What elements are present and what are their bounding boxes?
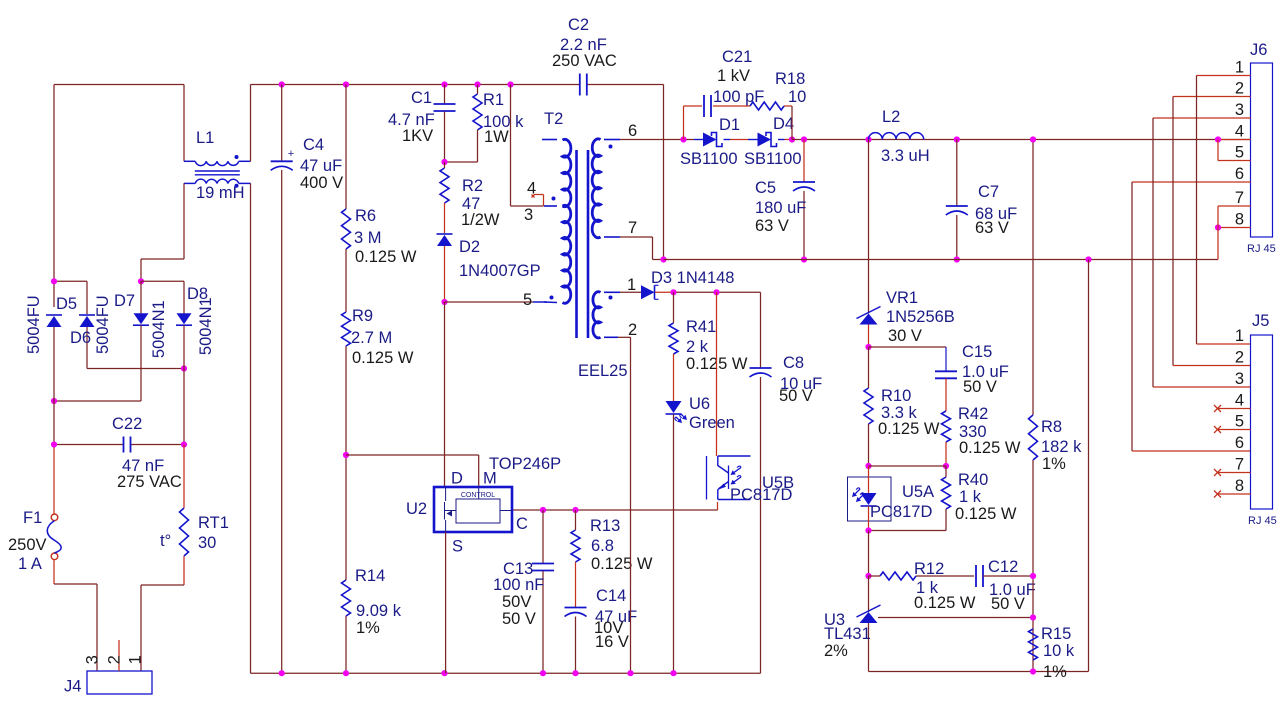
svg-text:6.8: 6.8 xyxy=(591,537,614,555)
label R6 xyxy=(355,207,376,225)
svg-text:1KV: 1KV xyxy=(402,127,433,145)
wire T2-2 drop xyxy=(618,337,631,673)
svg-text:0.125 W: 0.125 W xyxy=(591,555,653,573)
pin label 3 xyxy=(524,206,533,224)
label R40 xyxy=(958,471,988,489)
pin label J6-4 xyxy=(1235,123,1244,141)
node R14 gnd xyxy=(343,670,349,676)
wire D5 out xyxy=(53,327,55,514)
svg-text:1 k: 1 k xyxy=(959,488,982,506)
wire L1 top to bus xyxy=(250,85,252,162)
resistor R1 xyxy=(473,94,482,130)
svg-text:3: 3 xyxy=(1235,370,1244,388)
label 2% xyxy=(824,642,848,660)
svg-text:C8: C8 xyxy=(783,354,804,372)
resistor R6 xyxy=(342,209,351,249)
wire U6 gnd xyxy=(673,415,675,674)
svg-text:R41: R41 xyxy=(686,318,716,336)
label 100 k xyxy=(483,113,524,131)
wire U5B emitter to control xyxy=(512,502,718,510)
svg-text:6: 6 xyxy=(1235,434,1244,452)
capacitor C21 xyxy=(704,95,711,117)
label U5B xyxy=(762,474,794,492)
connector J4 xyxy=(87,671,152,694)
label 250 VAC xyxy=(552,52,617,70)
label t-deg xyxy=(160,532,171,550)
label 10 xyxy=(788,88,806,106)
svg-text:6: 6 xyxy=(628,122,637,140)
label R14 xyxy=(355,567,385,585)
diode D3 xyxy=(641,285,659,299)
node sec+ xyxy=(680,136,686,142)
svg-text:8: 8 xyxy=(1235,211,1244,229)
label 100 nF xyxy=(493,576,544,594)
resistor R15 xyxy=(1029,629,1038,660)
label C4 xyxy=(303,136,324,154)
svg-text:400 V: 400 V xyxy=(300,174,343,192)
svg-text:C2: C2 xyxy=(568,16,589,34)
resistor R9 xyxy=(342,312,351,346)
wire R41 stubs xyxy=(673,292,675,401)
svg-text:4: 4 xyxy=(1235,392,1244,410)
svg-text:R6: R6 xyxy=(355,207,376,225)
svg-text:1%: 1% xyxy=(1042,455,1066,473)
svg-text:1: 1 xyxy=(127,655,145,664)
resistor R40 xyxy=(942,477,951,509)
wire M wire xyxy=(346,455,479,487)
wire top bus xyxy=(251,84,664,86)
pin label J6-7 xyxy=(1235,189,1244,207)
label U2 xyxy=(406,500,427,518)
wire C15-R42 xyxy=(945,379,947,412)
pin J6-1 xyxy=(1197,75,1251,77)
svg-text:R40: R40 xyxy=(958,471,988,489)
capacitor C2 xyxy=(580,74,587,96)
node R8/C12 xyxy=(1030,573,1036,579)
label Green xyxy=(689,414,735,432)
label R13 watt xyxy=(591,555,653,573)
svg-text:RJ 45: RJ 45 xyxy=(1248,515,1277,527)
pin label 1 xyxy=(627,276,636,294)
label 50 V (C15) xyxy=(963,378,997,396)
label R6 watt xyxy=(355,248,417,266)
svg-text:R1: R1 xyxy=(483,91,504,109)
capacitor C15 xyxy=(935,371,957,378)
svg-text:D3 1N4148: D3 1N4148 xyxy=(651,269,734,287)
label 68 uF xyxy=(975,205,1017,223)
node R13 tap xyxy=(572,507,578,513)
pin J5-8 no-connect xyxy=(1214,491,1251,498)
svg-text:4: 4 xyxy=(527,180,536,198)
wire C15 branch xyxy=(869,347,947,372)
wire T2-7 jog xyxy=(620,237,664,260)
svg-text:R9: R9 xyxy=(352,307,373,325)
wire D3 out xyxy=(655,291,761,293)
diode D7 xyxy=(133,313,149,325)
capacitor C5 xyxy=(793,140,815,260)
wire TL431 ref xyxy=(878,617,1033,619)
node bus-C1 xyxy=(441,81,447,87)
svg-text:1: 1 xyxy=(627,276,636,294)
node R8 top xyxy=(1030,136,1036,142)
svg-text:10: 10 xyxy=(788,88,806,106)
svg-text:R15: R15 xyxy=(1041,625,1071,643)
svg-text:3 M: 3 M xyxy=(354,229,382,247)
svg-text:30: 30 xyxy=(198,534,216,552)
pin label J5-1 xyxy=(1235,327,1244,345)
svg-text:8: 8 xyxy=(1235,477,1244,495)
pin label J6-1 xyxy=(1235,59,1244,77)
transformer T2 core xyxy=(577,150,589,338)
wire left AC riser to L1 xyxy=(183,85,185,162)
pin label J5-7 xyxy=(1235,456,1244,474)
svg-text:1/2W: 1/2W xyxy=(461,211,500,229)
label R12 xyxy=(914,560,944,578)
svg-text:182 k: 182 k xyxy=(1041,438,1082,456)
label D4 xyxy=(773,115,794,133)
svg-text:J4: J4 xyxy=(64,678,81,696)
wire D8 down xyxy=(183,325,185,444)
svg-text:J6: J6 xyxy=(1250,41,1267,59)
node C13 tap xyxy=(540,507,546,513)
wire R2 stubs xyxy=(444,162,446,233)
node C7 gnd xyxy=(954,256,960,262)
wire TL431 gnd xyxy=(868,623,870,672)
label F1 xyxy=(23,509,42,527)
pin label 4 xyxy=(527,180,536,198)
connector J6 xyxy=(1251,63,1273,237)
label R15 xyxy=(1041,625,1071,643)
label 2.2 nF xyxy=(560,36,607,54)
svg-text:50 V: 50 V xyxy=(502,610,536,628)
pin label J6-5 xyxy=(1235,144,1244,162)
pin label 1 xyxy=(127,655,145,664)
label 1 kV xyxy=(717,67,750,85)
diode D6 xyxy=(79,315,95,327)
label R15 tol xyxy=(1043,663,1067,681)
LED U6 xyxy=(666,401,682,414)
label 1N4007GP xyxy=(459,262,541,280)
svg-text:C5: C5 xyxy=(755,179,776,197)
svg-text:SB1100: SB1100 xyxy=(744,150,802,168)
diode D8 xyxy=(176,313,192,325)
label 1W xyxy=(484,128,509,146)
svg-text:1%: 1% xyxy=(356,619,380,637)
wire R1 stub xyxy=(445,85,478,163)
node R8/ref xyxy=(1030,614,1036,620)
svg-text:R14: R14 xyxy=(355,567,385,585)
node T2-2 gnd xyxy=(627,670,633,676)
label PC817D (U5B) xyxy=(730,486,792,504)
svg-text:R42: R42 xyxy=(958,405,988,423)
svg-text:J5: J5 xyxy=(1252,312,1269,330)
label 50 V (C12) xyxy=(991,595,1025,613)
pin label C xyxy=(516,515,528,533)
wire L1 to D7/D8 xyxy=(141,183,184,281)
label 250V xyxy=(8,536,47,554)
diode D4 xyxy=(758,133,777,147)
wire sense column xyxy=(345,85,347,674)
svg-text:250V: 250V xyxy=(8,536,47,554)
wire R8 out xyxy=(1032,460,1034,672)
svg-text:T2: T2 xyxy=(544,110,563,128)
svg-text:Green: Green xyxy=(689,414,735,432)
svg-text:1 kV: 1 kV xyxy=(717,67,750,85)
label R10 watt xyxy=(878,420,940,438)
label C21 xyxy=(722,48,752,66)
svg-text:0.125 W: 0.125 W xyxy=(914,594,976,612)
svg-text:3.3 uH: 3.3 uH xyxy=(881,147,930,165)
svg-text:t°: t° xyxy=(160,532,171,550)
wire opto to R12 xyxy=(868,531,870,577)
svg-text:10 k: 10 k xyxy=(1043,642,1075,660)
svg-text:5004N1: 5004N1 xyxy=(197,297,215,355)
svg-text:0.125 W: 0.125 W xyxy=(959,439,1021,457)
node M-node xyxy=(343,452,349,458)
label 19 mH xyxy=(196,184,245,202)
label D8 xyxy=(187,285,208,303)
node AC2 xyxy=(138,278,144,284)
label R13 xyxy=(590,517,620,535)
label 275 VAC xyxy=(117,473,182,491)
fuse F1 xyxy=(47,514,61,560)
label R12 watt xyxy=(914,594,976,612)
svg-text:2: 2 xyxy=(1235,80,1244,98)
svg-text:19 mH: 19 mH xyxy=(196,184,245,202)
pin J5-7 no-connect xyxy=(1214,469,1251,476)
pin label J5-8 xyxy=(1235,477,1244,495)
transformer T2 bias winding xyxy=(593,292,620,338)
label 47 uF xyxy=(300,157,342,175)
label 10 uF xyxy=(780,375,822,393)
pin label D xyxy=(451,470,463,488)
svg-text:L2: L2 xyxy=(882,108,900,126)
svg-text:30 V: 30 V xyxy=(888,327,922,345)
svg-text:0.125 W: 0.125 W xyxy=(878,420,940,438)
svg-text:TL431: TL431 xyxy=(824,625,871,643)
wire C2 to return xyxy=(663,85,665,260)
svg-text:1%: 1% xyxy=(1043,663,1067,681)
svg-text:D6: D6 xyxy=(70,329,91,347)
label R1 xyxy=(483,91,504,109)
wire snubber xyxy=(684,106,793,140)
svg-text:F1: F1 xyxy=(23,509,42,527)
label R2 xyxy=(462,177,483,195)
node DC-minus xyxy=(51,398,57,404)
label R10 xyxy=(881,387,911,405)
node C4 gnd xyxy=(279,670,285,676)
label L1 xyxy=(196,129,214,147)
svg-text:R2: R2 xyxy=(462,177,483,195)
wire F1 to J4 pin3 xyxy=(54,560,97,671)
resistor R10 xyxy=(864,388,873,424)
node C7 top xyxy=(954,136,960,142)
label U3 xyxy=(824,611,845,629)
resistor R41 xyxy=(669,323,678,354)
label 100 pF xyxy=(713,88,764,106)
svg-text:275 VAC: 275 VAC xyxy=(117,473,182,491)
svg-text:2.7 M: 2.7 M xyxy=(351,329,392,347)
label 1 k (R12) xyxy=(916,579,939,597)
label 1N4005 (D8) xyxy=(197,297,215,355)
label C8 xyxy=(783,354,804,372)
label RJ 45 (J6) xyxy=(1247,243,1276,255)
svg-text:9.09 k: 9.09 k xyxy=(356,602,402,620)
wire secondary gnd riser xyxy=(1088,260,1090,672)
svg-text:R18: R18 xyxy=(775,70,805,88)
svg-text:3: 3 xyxy=(524,206,533,224)
node bus-C4 xyxy=(279,81,285,87)
shunt U3 TL431 xyxy=(857,605,881,623)
node C22 left xyxy=(51,441,57,447)
pin J5-5 no-connect xyxy=(1214,426,1251,433)
wire J6-1 to J5-1 xyxy=(1197,76,1251,345)
svg-text:2%: 2% xyxy=(824,642,848,660)
svg-text:C14: C14 xyxy=(596,587,626,605)
label 47 nF xyxy=(122,457,164,475)
svg-text:1N5256B: 1N5256B xyxy=(886,308,955,326)
zener VR1 xyxy=(857,307,881,325)
label TOP246P xyxy=(489,455,561,473)
svg-text:C12: C12 xyxy=(988,558,1018,576)
wire R40 stubs xyxy=(869,466,947,531)
node C22 right xyxy=(181,441,187,447)
pin J6-6 xyxy=(1132,181,1251,183)
capacitor C4 xyxy=(271,85,294,674)
svg-text:RT1: RT1 xyxy=(198,514,229,532)
svg-text:0.125 W: 0.125 W xyxy=(355,248,417,266)
wire R12-C12 xyxy=(869,575,975,577)
svg-text:4: 4 xyxy=(1235,123,1244,141)
svg-text:3: 3 xyxy=(83,655,101,664)
label U5A xyxy=(902,483,934,501)
diode D1 xyxy=(703,133,722,147)
svg-text:3: 3 xyxy=(1235,101,1244,119)
label 3.3 uH xyxy=(881,147,930,165)
label 63 V xyxy=(755,217,789,235)
label R42 xyxy=(958,405,988,423)
label C7 xyxy=(978,183,999,201)
label 4.7 nF xyxy=(388,111,435,129)
svg-text:5: 5 xyxy=(1235,144,1244,162)
svg-text:PC817D: PC817D xyxy=(870,503,932,521)
node VR1/R10/C15 xyxy=(865,344,871,350)
pin J6-5 xyxy=(1218,140,1251,161)
label PC817D (U5A) xyxy=(870,503,932,521)
label 182 k xyxy=(1041,438,1082,456)
label R41 watt xyxy=(686,355,748,373)
node bias+ U5B xyxy=(713,289,719,295)
label 50 V (C8) xyxy=(779,387,813,405)
label 1.0 uF (C15) xyxy=(962,363,1009,381)
svg-text:2: 2 xyxy=(628,321,637,339)
label RJ 45 (J5) xyxy=(1248,515,1277,527)
label R18 xyxy=(775,70,805,88)
wire D1-D4 xyxy=(724,139,758,141)
label U6 xyxy=(689,395,710,413)
svg-text:R8: R8 xyxy=(1041,418,1062,436)
inductor L2 xyxy=(869,133,924,140)
wire D2 out xyxy=(444,246,446,302)
wire bias to C8 xyxy=(760,292,762,673)
node D6/D8 junction xyxy=(181,365,187,371)
node D2/T2-5/U2-D xyxy=(441,299,447,305)
svg-text:D4: D4 xyxy=(773,115,794,133)
node fb divider xyxy=(865,463,949,469)
label C13 xyxy=(503,560,533,578)
label UF4005 (D6) xyxy=(94,295,112,354)
svg-text:R10: R10 xyxy=(881,387,911,405)
label 47 xyxy=(462,195,480,213)
label 9.09 k xyxy=(356,602,402,620)
label 1N4005 (D7) xyxy=(150,300,168,358)
node U2 source gnd xyxy=(441,670,447,676)
wire VR1 riser xyxy=(868,140,870,314)
svg-text:50 V: 50 V xyxy=(991,595,1025,613)
resistor R42 xyxy=(942,411,951,442)
label C13 50 V xyxy=(502,610,536,628)
svg-text:S: S xyxy=(452,538,463,556)
svg-text:D7: D7 xyxy=(114,292,135,310)
svg-text:0.125 W: 0.125 W xyxy=(352,349,414,367)
label 2.7 M xyxy=(351,329,392,347)
node bottom-rail left corner xyxy=(251,672,761,674)
inductor L1 xyxy=(184,155,251,188)
wire D4 out xyxy=(778,139,792,141)
node R15 gnd xyxy=(1030,668,1036,674)
pin J4-2 stub xyxy=(118,640,120,671)
capacitor C12 xyxy=(976,565,983,587)
transformer T2 primary xyxy=(542,139,571,303)
svg-text:C15: C15 xyxy=(962,343,992,361)
wire fb node xyxy=(869,465,947,467)
node AC1 xyxy=(51,278,57,284)
pin J5-4 no-connect xyxy=(1214,405,1251,412)
svg-text:250 VAC: 250 VAC xyxy=(552,52,617,70)
optocoupler U5B xyxy=(707,456,751,500)
label C5 xyxy=(755,179,776,197)
pin label J6-3 xyxy=(1235,101,1244,119)
pin label M xyxy=(483,470,497,488)
svg-text:L1: L1 xyxy=(196,129,214,147)
label D3 1N4148 xyxy=(651,269,734,287)
pin label 6 xyxy=(628,122,637,140)
label D1 xyxy=(719,116,740,134)
node R12 left xyxy=(865,573,871,579)
svg-text:EEL25: EEL25 xyxy=(578,362,628,380)
pin label J5-5 xyxy=(1235,413,1244,431)
label C2 xyxy=(568,16,589,34)
wire to T2 pin5 xyxy=(445,301,548,303)
svg-text:63 V: 63 V xyxy=(755,217,789,235)
node bus-tap xyxy=(507,81,513,87)
svg-text:1 A: 1 A xyxy=(18,555,42,573)
label 1N5256B xyxy=(886,308,955,326)
node C1/R1/R2 xyxy=(441,159,447,165)
pin label J5-4 xyxy=(1235,392,1244,410)
label 330 xyxy=(959,423,987,441)
wire out bus xyxy=(792,139,1251,141)
svg-text:5004FU: 5004FU xyxy=(94,295,112,354)
svg-text:50 V: 50 V xyxy=(779,387,813,405)
pin J6-3 xyxy=(1153,117,1251,119)
svg-text:SB1100: SB1100 xyxy=(680,150,738,168)
svg-text:180 uF: 180 uF xyxy=(755,199,806,217)
wire R10 stubs xyxy=(868,347,870,466)
node bus-R1 xyxy=(474,81,480,87)
pin label 3 xyxy=(83,655,101,664)
label R41 xyxy=(686,318,716,336)
